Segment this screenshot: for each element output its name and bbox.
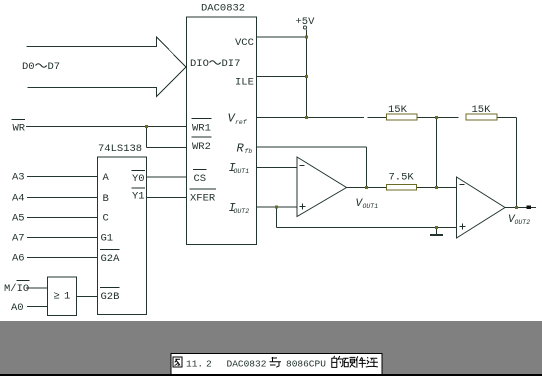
svg-text:G1: G1 (101, 233, 114, 245)
svg-text:8086CPU: 8086CPU (286, 359, 326, 370)
op-amp U4 minus sign (460, 184, 465, 186)
wire IOUT1 to inverting input (257, 167, 298, 169)
svg-text:Y0: Y0 (132, 173, 145, 185)
svg-text:G2B: G2B (101, 291, 120, 303)
resistor R1 15K body (387, 114, 418, 120)
wire Vref (257, 117, 365, 119)
svg-text:Y1: Y1 (132, 191, 145, 203)
wire ground branch vertical (276, 207, 278, 228)
junction +5V/ILE (305, 75, 308, 78)
op-amp U3 (297, 157, 347, 217)
svg-text:WR2: WR2 (192, 141, 211, 153)
svg-text:15K: 15K (472, 104, 492, 116)
svg-text:D0: D0 (22, 61, 35, 73)
op-amp U3 minus sign (300, 165, 305, 167)
wire WR2 horizontal (147, 147, 187, 149)
svg-text:DI7: DI7 (222, 58, 241, 70)
svg-text:OUT2: OUT2 (515, 219, 531, 226)
svg-text:A4: A4 (12, 193, 25, 205)
wire Y1 to XFER (147, 197, 187, 199)
op-amp U3 plus sign (300, 206, 306, 208)
svg-text:7.5K: 7.5K (389, 172, 415, 184)
svg-text:≥: ≥ (54, 291, 60, 303)
svg-text:XFER: XFER (190, 193, 216, 205)
svg-text:DAC0832: DAC0832 (201, 3, 245, 15)
svg-text:A6: A6 (12, 253, 25, 265)
wire A6 (27, 257, 98, 259)
caption glyph de (of) (332, 356, 343, 368)
svg-text:2: 2 (206, 359, 212, 370)
svg-text:WR: WR (13, 123, 26, 135)
74LS138 decoder U2 body (98, 157, 147, 315)
svg-text:DAC0832: DAC0832 (227, 359, 267, 370)
wire Y0 to CS (147, 176, 187, 178)
svg-text:C: C (103, 213, 109, 225)
junction +5V/Vref (305, 116, 308, 119)
wire R3 to opamp2 inverting input (417, 187, 457, 189)
junction IOUT2 branch (275, 206, 278, 209)
svg-text:OUT1: OUT1 (363, 203, 379, 210)
wire A5 (27, 217, 98, 219)
ground symbol stem (436, 228, 438, 235)
junction +5V/VCC (305, 36, 308, 39)
svg-text:G2A: G2A (101, 253, 121, 265)
wire A3 (27, 176, 98, 178)
caption glyph yu (with) (270, 357, 282, 367)
black bottom strip (0, 374, 542, 376)
svg-text:15K: 15K (388, 104, 408, 116)
wire A7 (27, 237, 98, 239)
svg-text:VCC: VCC (235, 37, 254, 49)
svg-text:A0: A0 (11, 302, 24, 314)
wire ILE (257, 76, 307, 78)
svg-text:DIO: DIO (190, 58, 209, 70)
svg-text:D7: D7 (48, 61, 61, 73)
junction opamp2 output (515, 206, 518, 209)
gray footer bar (0, 321, 542, 374)
wire A0 input (27, 306, 48, 308)
wire R2 down to output (516, 118, 518, 208)
caption box (171, 353, 382, 374)
wire +5V rail vertical (306, 30, 308, 118)
svg-text:fb: fb (245, 148, 253, 155)
svg-text:CS: CS (194, 173, 207, 185)
wire R1 to junction (417, 117, 459, 119)
svg-text:ILE: ILE (235, 77, 254, 89)
wire Rfb down to opamp output (366, 147, 368, 188)
DAC0832 chip U1 body (187, 17, 257, 245)
resistor R3 7.5K body (387, 185, 417, 191)
svg-text:A7: A7 (12, 233, 25, 245)
svg-text:A: A (103, 172, 110, 184)
svg-text:M/IO: M/IO (4, 283, 29, 295)
op-amp U4 (457, 177, 506, 238)
caption glyph tu (figure) (173, 357, 182, 367)
svg-text:B: B (103, 193, 109, 205)
svg-text:OUT2: OUT2 (234, 208, 250, 215)
svg-text:WR1: WR1 (192, 123, 211, 135)
wire 15K junction down (436, 118, 438, 188)
wire R2 right (497, 117, 517, 119)
wire ground rail horizontal (277, 227, 457, 229)
junction ground (435, 226, 438, 229)
caption glyph lian (connect) (366, 357, 378, 367)
svg-text:ref: ref (235, 119, 248, 126)
caption glyph jian (piece) (356, 356, 366, 367)
junction WR/WR2 (145, 125, 148, 128)
svg-text:OUT1: OUT1 (234, 168, 250, 175)
resistor R2 15K body (466, 114, 497, 120)
wire WR to WR1 (26, 126, 187, 128)
ground symbol bar (430, 234, 443, 236)
wire WR2 branch vertical (146, 127, 148, 148)
svg-text:1: 1 (64, 291, 70, 303)
wire Vref segment 2 (368, 117, 387, 119)
wire opamp1 output (347, 187, 387, 189)
svg-text:A5: A5 (12, 213, 25, 225)
bus arrow D0~D7 (27, 37, 187, 97)
+5V terminal circle (303, 26, 306, 29)
wire M/IO input (26, 287, 48, 289)
junction 15K/15K (435, 116, 438, 119)
svg-text:A3: A3 (12, 172, 25, 184)
wire A4 (27, 197, 98, 199)
wire IOUT2 to noninverting input (257, 206, 298, 208)
caption glyph ying (hard) (343, 357, 355, 367)
wire Rfb (257, 146, 367, 148)
wire OR gate output to G2B (77, 296, 98, 298)
junction 7.5K right (435, 186, 438, 189)
svg-text:11.: 11. (186, 359, 203, 370)
svg-text:74LS138: 74LS138 (98, 143, 142, 155)
wire VCC (257, 36, 307, 38)
op-amp U4 plus sign (460, 226, 466, 228)
OR gate (>=1) body (48, 277, 77, 316)
junction opamp1 output (365, 186, 368, 189)
wire opamp2 output VOUT2 (505, 207, 536, 209)
svg-text:R: R (237, 142, 245, 156)
output terminal blob VOUT2 (527, 206, 532, 210)
